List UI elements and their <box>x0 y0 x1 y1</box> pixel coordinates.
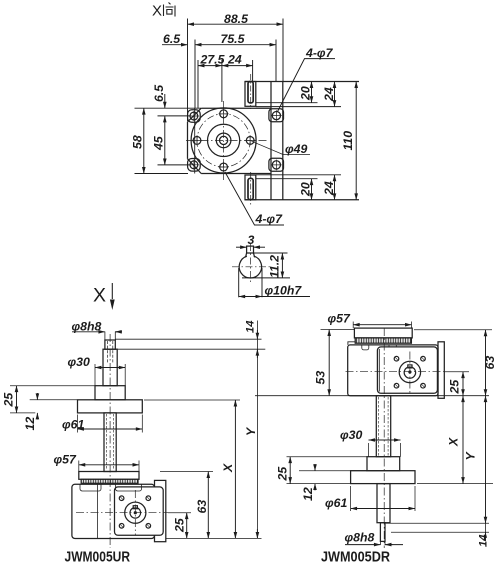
flange plate outline (square with chamfered left corners) <box>188 108 272 173</box>
dim phi30 UR <box>68 355 126 386</box>
svg-text:4-φ7: 4-φ7 <box>255 212 284 226</box>
collar phi30 <box>95 386 125 400</box>
housing top edge <box>245 81 359 83</box>
housing inner bore lines <box>96 484 98 538</box>
dim 25 DR left <box>276 457 368 484</box>
center bore circles <box>216 133 231 148</box>
worm boss circles <box>125 502 146 523</box>
svg-text:φ30: φ30 <box>340 428 362 442</box>
dim 25 UR right <box>168 513 191 539</box>
dim 6.5 vertical left <box>152 85 166 108</box>
svg-text:Y: Y <box>464 451 478 461</box>
dim 11.2 <box>242 253 290 278</box>
dim 24 right lower <box>256 175 341 200</box>
dim phi10h7 <box>239 268 310 298</box>
svg-text:11.2: 11.2 <box>268 255 282 278</box>
svg-text:6.5: 6.5 <box>152 85 166 102</box>
dim 20 top right <box>256 82 318 103</box>
dim X DR <box>417 396 493 484</box>
shaft phi8 tip DR <box>380 523 385 545</box>
svg-text:24: 24 <box>227 53 242 67</box>
svg-text:24: 24 <box>322 87 336 102</box>
shaft circle phi10 <box>239 256 261 278</box>
dim phi61 DR <box>325 486 415 511</box>
dim 25 DR right <box>444 372 469 396</box>
svg-text:25: 25 <box>448 380 462 395</box>
top disc phi57 <box>79 472 139 480</box>
svg-text:12: 12 <box>301 487 315 501</box>
svg-text:14: 14 <box>245 320 257 333</box>
svg-text:φ57: φ57 <box>54 453 77 467</box>
worm centerline horizontal <box>76 512 168 514</box>
long bottom line DR <box>255 395 489 397</box>
svg-text:20: 20 <box>299 86 313 101</box>
svg-text:24: 24 <box>322 181 336 196</box>
gearbox housing <box>72 484 155 538</box>
trunnion bracket DR <box>438 342 444 399</box>
section centerline vertical <box>249 244 251 284</box>
bolt hole W <box>192 135 202 145</box>
worm face plate DR <box>377 347 437 393</box>
dim 24 right upper <box>256 82 341 107</box>
worm shaft end block top (rib) <box>245 82 256 107</box>
flange disc phi61 DR <box>351 471 415 484</box>
svg-text:12: 12 <box>23 417 37 431</box>
svg-text:X: X <box>447 437 461 447</box>
section centerline horizontal <box>232 266 270 268</box>
svg-text:φ57: φ57 <box>328 312 351 326</box>
svg-text:φ8h8: φ8h8 <box>345 531 375 545</box>
screw centerline DR <box>383 328 385 548</box>
svg-text:20: 20 <box>299 182 313 197</box>
dim 6.5 horizontal <box>162 32 188 46</box>
lock ring serrated <box>81 479 138 483</box>
input shaft phi8 <box>105 332 115 365</box>
svg-text:25: 25 <box>2 393 16 408</box>
dim 14 UR <box>245 320 258 539</box>
worm face plate <box>115 487 164 535</box>
svg-text:53: 53 <box>314 371 328 385</box>
dim 25 UR left <box>2 386 96 413</box>
dim 63 DR <box>414 330 497 396</box>
collar phi30 DR <box>367 457 400 471</box>
view label X-direction <box>152 3 175 20</box>
screw centerline <box>109 334 111 548</box>
screw shaft DR <box>376 396 390 457</box>
svg-text:X: X <box>221 463 235 473</box>
svg-text:φ49: φ49 <box>285 142 307 156</box>
label 4-phi7 bottom <box>225 172 284 226</box>
bolt hole E <box>245 135 255 145</box>
dim 20 bottom right <box>256 179 318 200</box>
step reference line <box>115 348 265 350</box>
dim 24 top <box>222 53 253 103</box>
bracket hole bottom <box>271 160 282 171</box>
svg-text:27.5: 27.5 <box>200 53 225 67</box>
dim 88.5 <box>188 12 284 121</box>
svg-text:25: 25 <box>276 467 290 482</box>
dim 27.5 <box>198 53 225 109</box>
dim phi57 UR <box>54 453 140 472</box>
flange centerline horizontal <box>186 139 268 141</box>
right bracket column <box>269 82 284 200</box>
worm shaft end block bottom (rib) <box>245 175 256 200</box>
bolt circle phi49 (dash-dot) <box>197 114 250 167</box>
dim 14 DR <box>386 523 490 547</box>
dim phi8h8 DR <box>345 531 404 545</box>
housing bottom edge <box>245 199 359 201</box>
bolt hole S <box>219 162 229 172</box>
label phi49 with leader <box>252 141 311 156</box>
housing top steps <box>80 484 142 491</box>
svg-text:14: 14 <box>478 534 490 547</box>
dim X UR <box>144 400 240 538</box>
screw shaft <box>104 413 116 472</box>
svg-text:58: 58 <box>131 135 145 149</box>
svg-text:JWM005UR: JWM005UR <box>65 549 131 566</box>
svg-text:45: 45 <box>152 136 166 151</box>
dim phi8h8 UR <box>72 320 123 334</box>
dim phi30 DR <box>340 428 401 457</box>
trunnion bracket right <box>155 480 166 541</box>
gearbox housing DR <box>348 345 438 396</box>
svg-text:75.5: 75.5 <box>221 32 245 46</box>
svg-text:6.5: 6.5 <box>163 32 180 46</box>
dim 45 <box>152 116 190 165</box>
plate pilot edge line <box>194 108 196 173</box>
worm boss circles DR <box>399 361 420 382</box>
dim 63 UR <box>160 472 213 539</box>
dim 3 (key width) <box>236 233 265 247</box>
dim 58 <box>131 108 202 173</box>
worm centerline bottom <box>250 172 252 206</box>
dim Y DR <box>464 396 486 524</box>
svg-text:63: 63 <box>195 500 209 514</box>
corner pad bottom-left <box>188 159 201 172</box>
worm centerline top <box>250 74 252 109</box>
flange outer circle <box>191 108 256 173</box>
dim Y UR <box>244 349 258 538</box>
svg-text:4-φ7: 4-φ7 <box>305 46 334 60</box>
label 4-phi7 top <box>277 46 335 112</box>
shaft phi13 tail DR <box>377 484 390 523</box>
svg-text:X: X <box>93 285 106 307</box>
flange disc phi61 <box>78 400 143 413</box>
dim phi61 UR <box>62 415 142 433</box>
key <box>246 246 255 257</box>
worm centerlines DR <box>346 371 445 373</box>
svg-text:110: 110 <box>341 131 355 151</box>
dim 12 UR <box>23 393 77 431</box>
svg-text:Y: Y <box>244 426 258 436</box>
flange centerline vertical <box>223 101 225 180</box>
svg-text:φ61: φ61 <box>325 496 347 510</box>
lock ring serrated DR <box>355 338 411 343</box>
X view arrow <box>93 283 115 310</box>
worm centerline vertical <box>134 490 136 535</box>
flange mid circle <box>208 124 240 156</box>
dim phi57 DR <box>328 312 412 329</box>
shaft phi13 section <box>103 349 117 386</box>
dim 53 DR <box>314 330 355 396</box>
face bolt holes DR <box>394 356 425 388</box>
svg-text:φ10h7: φ10h7 <box>265 284 303 298</box>
face bolt holes <box>119 496 150 528</box>
svg-text:3: 3 <box>248 233 255 247</box>
bracket hole top <box>271 110 282 121</box>
bolt hole N <box>219 109 229 119</box>
corner pad top-left <box>188 110 201 123</box>
long reference line from shaft top <box>115 338 261 340</box>
dim 110 <box>341 82 356 200</box>
svg-text:JWM005DR: JWM005DR <box>321 549 390 566</box>
dim 12 DR <box>299 464 367 501</box>
svg-text:25: 25 <box>173 518 187 533</box>
dim 75.5 <box>195 32 276 108</box>
common bottom extension UR <box>166 537 262 539</box>
svg-text:X: X <box>152 3 162 20</box>
top disc phi57 DR <box>354 328 412 338</box>
svg-text:φ30: φ30 <box>68 355 90 369</box>
